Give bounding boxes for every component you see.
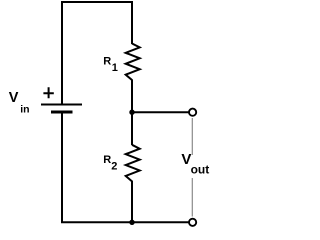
terminal top (open circle) [189,109,196,116]
terminal bottom (open circle) [189,219,196,226]
svg-text:1: 1 [112,62,118,74]
wire output to terminal [132,111,189,113]
node junction dot middle [129,110,134,115]
svg-text:R: R [103,56,111,68]
net line Vout upper segment (gray) [191,118,193,155]
wire bottom horizontal [61,221,189,223]
wire right bottom [131,181,133,223]
svg-text:V: V [9,90,19,106]
wire battery to bottom [61,113,63,222]
battery V1 positive plate [41,104,82,106]
net line Vout lower segment (gray) [191,178,193,217]
wire top horizontal [61,1,133,3]
svg-text:2: 2 [111,160,117,172]
wire right middle [131,80,133,146]
resistor R2 [126,145,140,182]
node junction dot bottom [129,220,134,225]
svg-text:out: out [191,163,210,177]
resistor R1 [126,44,140,81]
wire left vertical [61,1,63,104]
svg-text:in: in [20,103,29,115]
svg-text:R: R [103,154,111,166]
wire right top [131,1,133,44]
battery V1 negative plate [51,111,73,114]
polarity plus sign [43,87,53,98]
